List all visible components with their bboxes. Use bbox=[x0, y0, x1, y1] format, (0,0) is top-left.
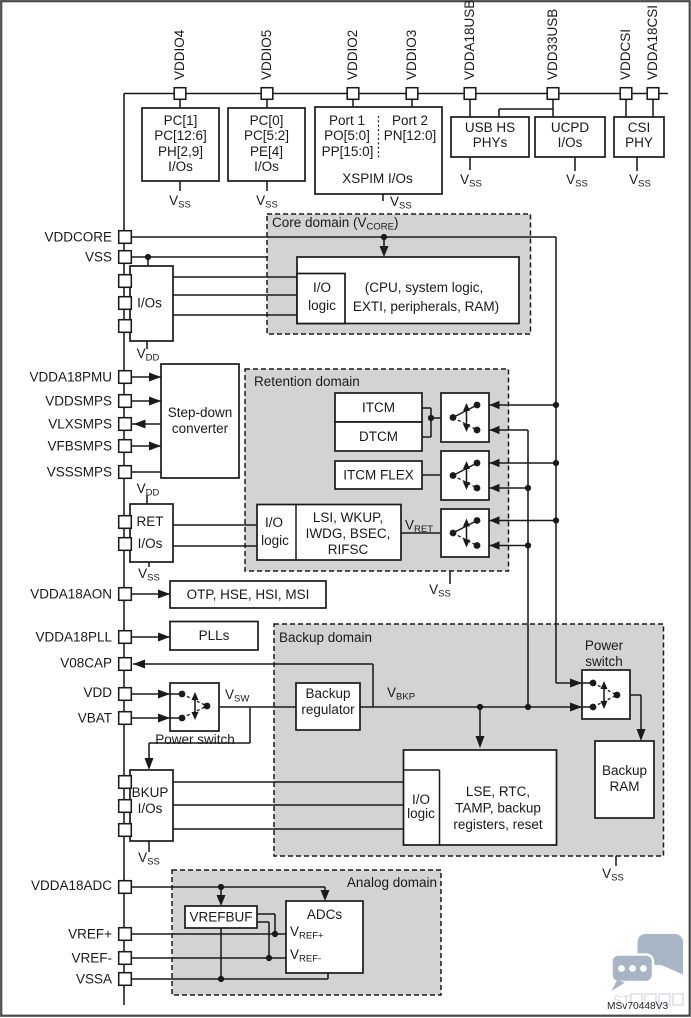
svg-text:PP[15:0]: PP[15:0] bbox=[322, 144, 374, 159]
pin VDDIO4 bbox=[174, 88, 186, 100]
svg-text:VREFBUF: VREFBUF bbox=[189, 910, 252, 925]
svg-text:VDDSMPS: VDDSMPS bbox=[45, 394, 112, 409]
svg-text:Retention domain: Retention domain bbox=[254, 374, 360, 389]
pin VDDA18PMU bbox=[119, 371, 132, 384]
svg-text:VFBSMPS: VFBSMPS bbox=[47, 439, 112, 454]
pin VBAT bbox=[119, 712, 132, 725]
domain: Backup domain gray dashed box bbox=[274, 624, 664, 856]
wire retention switch feeds from VCORE rail bbox=[477, 405, 556, 521]
svg-text:RET: RET bbox=[137, 514, 164, 529]
svg-text:BKUP: BKUP bbox=[132, 785, 169, 800]
pin I/Os c bbox=[119, 320, 132, 333]
wire VDDA18PLL arrow to PLLs box bbox=[132, 636, 171, 638]
pin VDDA18ADC bbox=[119, 881, 132, 894]
domain: Core domain gray dashed box bbox=[267, 214, 531, 334]
pin VSS bbox=[119, 251, 132, 264]
box core I/O logic bbox=[297, 274, 345, 324]
svg-text:VDDIO5: VDDIO5 bbox=[259, 30, 274, 80]
svg-text:XSPIM I/Os: XSPIM I/Os bbox=[342, 171, 413, 186]
switch symbol retention 2 bbox=[450, 460, 481, 492]
watermark small speech bubble bbox=[612, 955, 654, 983]
pin VDDIO3 bbox=[406, 88, 418, 100]
pin VDDCSI bbox=[620, 88, 632, 100]
pin VDDA18USB bbox=[464, 88, 476, 100]
svg-text:RIFSC: RIFSC bbox=[328, 542, 369, 557]
wire VREF+ line bbox=[132, 914, 287, 934]
pin VSSSMPS bbox=[119, 466, 132, 479]
switch symbol retention 3 bbox=[450, 517, 481, 549]
box I/Os (left) bbox=[130, 266, 173, 341]
box DTCM bbox=[335, 422, 422, 451]
wire VCORE rail into backup power switch bbox=[556, 682, 582, 684]
box RET I/Os bbox=[130, 504, 173, 562]
box ITCM FLEX bbox=[335, 461, 422, 489]
switch symbol power switch VDD/VBAT bbox=[170, 691, 210, 722]
wire stubs from top pins to IO boxes bbox=[179, 99, 181, 108]
svg-text:PC[0]: PC[0] bbox=[250, 113, 284, 128]
svg-text:Port 1: Port 1 bbox=[329, 113, 365, 128]
wire VBKP line bbox=[360, 706, 582, 708]
svg-text:LSE, RTC,: LSE, RTC, bbox=[466, 784, 530, 799]
svg-text:VDD33USB: VDD33USB bbox=[545, 9, 560, 80]
wire VDDCORE line to right rail bbox=[132, 236, 557, 238]
wire VDD arrow into power switch bbox=[132, 693, 171, 695]
box ADCs bbox=[286, 901, 363, 973]
switch symbol backup power switch bbox=[582, 680, 620, 711]
wire VREF- line bbox=[132, 922, 287, 958]
box XSPIM I/Os bbox=[315, 107, 442, 194]
pin I/Os b bbox=[119, 297, 132, 310]
wire VSW output to backup regulator and BKUP I/Os bbox=[149, 707, 296, 767]
pin VDD bbox=[119, 688, 132, 701]
wire VSSA line bbox=[132, 928, 329, 979]
box PLLs bbox=[170, 622, 258, 651]
svg-text:switch: switch bbox=[585, 654, 623, 669]
svg-text:I/Os: I/Os bbox=[558, 135, 583, 150]
box Step-down converter bbox=[161, 364, 239, 478]
svg-text:VDDA18ADC: VDDA18ADC bbox=[31, 878, 112, 893]
svg-text:VDDIO2: VDDIO2 bbox=[345, 30, 360, 80]
svg-text:IWDG, BSEC,: IWDG, BSEC, bbox=[306, 526, 391, 541]
domain: Analog domain gray dashed box bbox=[172, 870, 441, 995]
box retention switch 1 bbox=[441, 393, 489, 442]
wire VBAT arrow into power switch bbox=[132, 717, 171, 719]
svg-text:PHY: PHY bbox=[625, 135, 653, 150]
svg-text:VDDCSI: VDDCSI bbox=[618, 29, 633, 80]
svg-text:I/Os: I/Os bbox=[138, 536, 163, 551]
wire backup switch output to Backup RAM bbox=[617, 695, 641, 738]
pin BKUP I/Os c bbox=[119, 824, 132, 837]
svg-text:ITCM FLEX: ITCM FLEX bbox=[343, 468, 414, 483]
box LSE RTC TAMP bbox=[404, 750, 557, 845]
svg-text:PE[4]: PE[4] bbox=[250, 144, 283, 159]
svg-text:I/Os: I/Os bbox=[254, 159, 279, 174]
svg-text:LSI, WKUP,: LSI, WKUP, bbox=[313, 510, 383, 525]
wire top supply bus bbox=[124, 93, 668, 95]
svg-text:ITCM: ITCM bbox=[362, 400, 395, 415]
pin VDDA18CSI bbox=[647, 88, 659, 100]
svg-text:VDDA18AON: VDDA18AON bbox=[30, 587, 112, 602]
svg-text:I/Os: I/Os bbox=[137, 296, 162, 311]
svg-text:Step-down: Step-down bbox=[168, 405, 233, 420]
svg-text:EXTI, peripherals, RAM): EXTI, peripherals, RAM) bbox=[353, 299, 499, 314]
svg-text:DTCM: DTCM bbox=[359, 429, 398, 444]
svg-text:logic: logic bbox=[407, 806, 435, 821]
svg-text:VDDA18USB: VDDA18USB bbox=[462, 0, 477, 80]
wire VSS line bbox=[132, 256, 269, 258]
svg-text:PC[12:6]: PC[12:6] bbox=[154, 128, 207, 143]
pin RET I/Os b bbox=[119, 538, 132, 551]
box retention I/O logic + LSI WKUP bbox=[257, 505, 401, 561]
svg-text:Power: Power bbox=[585, 638, 624, 653]
box USB HS PHYs bbox=[451, 117, 529, 157]
wire VSS stub under retention domain bbox=[449, 571, 451, 584]
wire VSS stub under backup domain bbox=[615, 856, 617, 866]
pin RET I/Os a bbox=[119, 516, 132, 529]
svg-text:ADCs: ADCs bbox=[307, 907, 343, 922]
svg-text:VDDCORE: VDDCORE bbox=[44, 230, 112, 245]
wire ITCM FLEX to switch 2 bbox=[422, 474, 453, 476]
box retention switch 2 bbox=[441, 451, 489, 500]
pin VDDSMPS bbox=[119, 395, 132, 408]
svg-text:regulator: regulator bbox=[301, 702, 355, 717]
svg-text:PO[5:0]: PO[5:0] bbox=[324, 128, 370, 143]
wire VBKP rail up to retention switches bbox=[527, 430, 529, 707]
svg-text:USB HS: USB HS bbox=[465, 120, 515, 135]
pin V08CAP bbox=[119, 658, 132, 671]
wire VDD stub above RET I/Os bbox=[146, 495, 148, 504]
svg-text:Analog domain: Analog domain bbox=[347, 875, 437, 890]
svg-text:Port 2: Port 2 bbox=[392, 113, 428, 128]
svg-text:PC[1]: PC[1] bbox=[164, 113, 198, 128]
svg-text:VREF-: VREF- bbox=[72, 951, 113, 966]
box power switch (VDD/VBAT) bbox=[170, 683, 219, 731]
box PC[1] I/Os bbox=[142, 108, 219, 181]
pin I/Os a bbox=[119, 275, 132, 288]
svg-text:VDDA18PMU: VDDA18PMU bbox=[29, 370, 112, 385]
wire BKUP I/Os to backup I/O logic x3 bbox=[173, 782, 404, 829]
box BKUP I/Os bbox=[130, 770, 173, 841]
svg-text:MSv70448V3: MSv70448V3 bbox=[607, 1001, 668, 1012]
svg-text:Backup domain: Backup domain bbox=[279, 630, 372, 645]
svg-text:VREF+: VREF+ bbox=[68, 927, 112, 942]
wire VDDA18ADC line with branches bbox=[132, 887, 326, 903]
svg-text:VSSA: VSSA bbox=[76, 972, 112, 987]
svg-text:VDDA18CSI: VDDA18CSI bbox=[645, 5, 660, 80]
pin VDDIO2 bbox=[347, 88, 359, 100]
wire VDD stub under I/Os bbox=[146, 341, 148, 349]
pin VDD33USB bbox=[547, 88, 559, 100]
svg-text:PLLs: PLLs bbox=[199, 628, 230, 643]
wire ITCM/DTCM bracket to switch 1 bbox=[422, 408, 453, 437]
svg-text:registers, reset: registers, reset bbox=[453, 817, 543, 832]
pin VLXSMPS bbox=[119, 418, 132, 431]
svg-text:VDDIO4: VDDIO4 bbox=[172, 29, 187, 80]
pin VDDA18PLL bbox=[119, 631, 132, 644]
box CSI PHY bbox=[614, 117, 664, 157]
svg-text:VDD: VDD bbox=[83, 685, 112, 700]
svg-text:VBAT: VBAT bbox=[78, 711, 112, 726]
box UCPD I/Os bbox=[535, 117, 605, 157]
svg-text:OTP, HSE, HSI, MSI: OTP, HSE, HSI, MSI bbox=[187, 587, 310, 602]
svg-text:Backup: Backup bbox=[305, 686, 350, 701]
svg-text:logic: logic bbox=[261, 533, 289, 548]
switch symbol retention 1 bbox=[450, 402, 481, 434]
svg-text:TAMP, backup: TAMP, backup bbox=[455, 801, 541, 816]
pin BKUP I/Os b bbox=[119, 800, 132, 813]
box core CPU block bbox=[297, 257, 519, 324]
pin VSSA bbox=[119, 973, 132, 986]
svg-text:VDDA18PLL: VDDA18PLL bbox=[35, 630, 112, 645]
box ITCM bbox=[335, 393, 422, 422]
svg-text:I/Os: I/Os bbox=[168, 159, 193, 174]
wire VSS stub under BKUP I/Os bbox=[148, 841, 150, 852]
box backup power switch bbox=[582, 670, 630, 719]
svg-text:logic: logic bbox=[308, 298, 336, 313]
watermark big speech bubble bbox=[659, 950, 683, 975]
svg-text:converter: converter bbox=[172, 421, 229, 436]
svg-text:I/O: I/O bbox=[412, 792, 430, 807]
svg-text:CSI: CSI bbox=[628, 120, 651, 135]
wire V08CAP from VBKP rail bbox=[133, 664, 373, 707]
wire left main vertical rail bbox=[123, 94, 125, 1006]
box OTP HSE HSI MSI bbox=[170, 581, 326, 608]
wire SMPS pin arrows bbox=[132, 376, 162, 378]
wire VRET to switch 3 bbox=[401, 532, 453, 534]
svg-text:VSSSMPS: VSSSMPS bbox=[47, 465, 112, 480]
box PC[0] I/Os bbox=[228, 108, 305, 181]
svg-text:(CPU, system logic,: (CPU, system logic, bbox=[365, 280, 484, 295]
svg-text:UCPD: UCPD bbox=[551, 120, 590, 135]
svg-text:VLXSMPS: VLXSMPS bbox=[48, 417, 112, 432]
svg-text:VDDIO3: VDDIO3 bbox=[404, 30, 419, 80]
svg-text:VSS: VSS bbox=[85, 250, 112, 265]
wire I/Os to core I/O logic x3 bbox=[173, 277, 297, 315]
wire VSS stub under RET I/Os bbox=[148, 562, 150, 567]
svg-text:PN[12:0]: PN[12:0] bbox=[384, 128, 437, 143]
wire retention switch feeds from VBKP rail bbox=[477, 430, 528, 546]
pin VDDIO5 bbox=[261, 88, 273, 100]
wire arrow into LSE RTC block bbox=[479, 707, 481, 745]
domain: Retention domain gray dashed box bbox=[245, 369, 509, 571]
svg-text:PH[2,9]: PH[2,9] bbox=[158, 144, 203, 159]
wire VDDA18AON arrow to OTP box bbox=[132, 593, 171, 595]
box Backup regulator bbox=[296, 683, 360, 730]
svg-text:I/Os: I/Os bbox=[138, 801, 163, 816]
svg-text:I/O: I/O bbox=[265, 515, 283, 530]
svg-text:V08CAP: V08CAP bbox=[60, 656, 112, 671]
pin BKUP I/Os a bbox=[119, 776, 132, 789]
svg-text:RAM: RAM bbox=[610, 779, 640, 794]
svg-text:I/O: I/O bbox=[313, 280, 331, 295]
svg-text:Power switch: Power switch bbox=[155, 732, 235, 747]
wire right vertical rail VCORE bbox=[555, 237, 557, 683]
box retention switch 3 bbox=[441, 509, 489, 557]
wire RET I/Os to retention I/O logic x2 bbox=[173, 525, 257, 546]
svg-text:PC[5:2]: PC[5:2] bbox=[244, 128, 289, 143]
svg-text:PHYs: PHYs bbox=[473, 135, 508, 150]
pin VDDCORE bbox=[119, 231, 132, 244]
box Backup RAM bbox=[595, 741, 654, 818]
pin VREF- bbox=[119, 952, 132, 965]
pin VDDA18AON bbox=[119, 588, 132, 601]
wire arrow into core logic box bbox=[383, 237, 385, 254]
svg-text:Backup: Backup bbox=[602, 763, 647, 778]
wire VDD33USB branch to USB PHY bbox=[499, 109, 553, 117]
pin VREF+ bbox=[119, 928, 132, 941]
pin VFBSMPS bbox=[119, 440, 132, 453]
wire Vss stubs under top boxes bbox=[179, 181, 181, 191]
box VREFBUF bbox=[185, 906, 257, 928]
